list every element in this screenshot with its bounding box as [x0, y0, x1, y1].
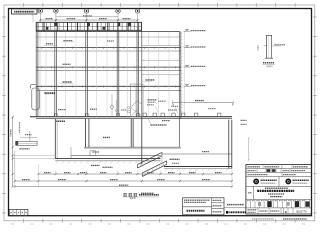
main columns — [36, 22, 181, 147]
basement slabs — [84, 146, 181, 148]
basement walls — [55, 117, 142, 165]
hoist detail above ground — [131, 101, 142, 108]
stair flight upper — [138, 152, 163, 168]
svg-text:B102779: B102779 — [296, 211, 307, 214]
band left pointer — [32, 15, 34, 23]
zone numerals — [11, 223, 14, 225]
title row1 cells — [263, 165, 292, 169]
slab underside hatching — [56, 161, 228, 171]
company logo right — [278, 177, 280, 187]
company logo left — [254, 179, 259, 184]
secondary posts — [46, 31, 169, 116]
signature columns — [250, 199, 309, 208]
top dimension lines — [40, 19, 137, 21]
title block rows — [246, 169, 312, 208]
band dividers — [38, 22, 139, 30]
detail caption — [263, 62, 274, 64]
lower hall slabs — [162, 153, 232, 155]
left duct — [32, 88, 39, 110]
roof parapet band — [36, 21, 142, 23]
title row2 stamps — [257, 169, 290, 173]
right retaining wall — [228, 120, 230, 169]
right wall vertical dim — [248, 138, 250, 160]
column base plates — [54, 114, 57, 117]
bottom dimension line 3 — [15, 186, 232, 188]
side strip — [224, 207, 246, 209]
stair flight lower — [142, 161, 166, 177]
floor slab lines — [36, 47, 181, 49]
GL marks right — [241, 119, 247, 121]
roof slab right bay — [142, 30, 180, 32]
right wall ruler ticks — [181, 33, 183, 115]
floor beam ticks — [42, 47, 176, 88]
dim extension verticals — [15, 164, 232, 187]
plinth fittings — [143, 113, 146, 116]
bottom dimension line 1 — [38, 173, 232, 175]
hall labels — [170, 158, 180, 160]
ground line — [30, 116, 232, 118]
ground annotations — [147, 104, 154, 106]
band dark cells — [54, 23, 57, 26]
svg-text:B: B — [285, 210, 287, 214]
revision stamp box — [9, 209, 28, 215]
caption annex text — [139, 194, 159, 196]
title bottom row — [258, 208, 293, 214]
section caption glyphs — [124, 193, 127, 196]
column detail figure — [266, 35, 268, 58]
title block outer — [246, 165, 312, 214]
below-frame note — [283, 218, 307, 220]
right bay landings — [142, 45, 180, 47]
small machinery left of equipment — [111, 94, 113, 117]
footing note — [141, 192, 154, 194]
left dimension chain — [12, 117, 14, 187]
slab extension to dim chain — [13, 154, 56, 156]
equipment on 1F — [131, 84, 144, 117]
yard dimension — [173, 101, 234, 103]
approval table — [183, 198, 224, 215]
column grid bubbles — [38, 9, 42, 13]
basement labels — [56, 120, 65, 122]
elevation level markers — [184, 30, 191, 32]
interior labels — [45, 92, 56, 94]
title row3 — [281, 172, 283, 176]
bottom dimension line 2 — [15, 180, 232, 182]
drawing number box — [12, 9, 38, 14]
pump pipe unit — [16, 141, 37, 145]
title area — [253, 186, 255, 199]
